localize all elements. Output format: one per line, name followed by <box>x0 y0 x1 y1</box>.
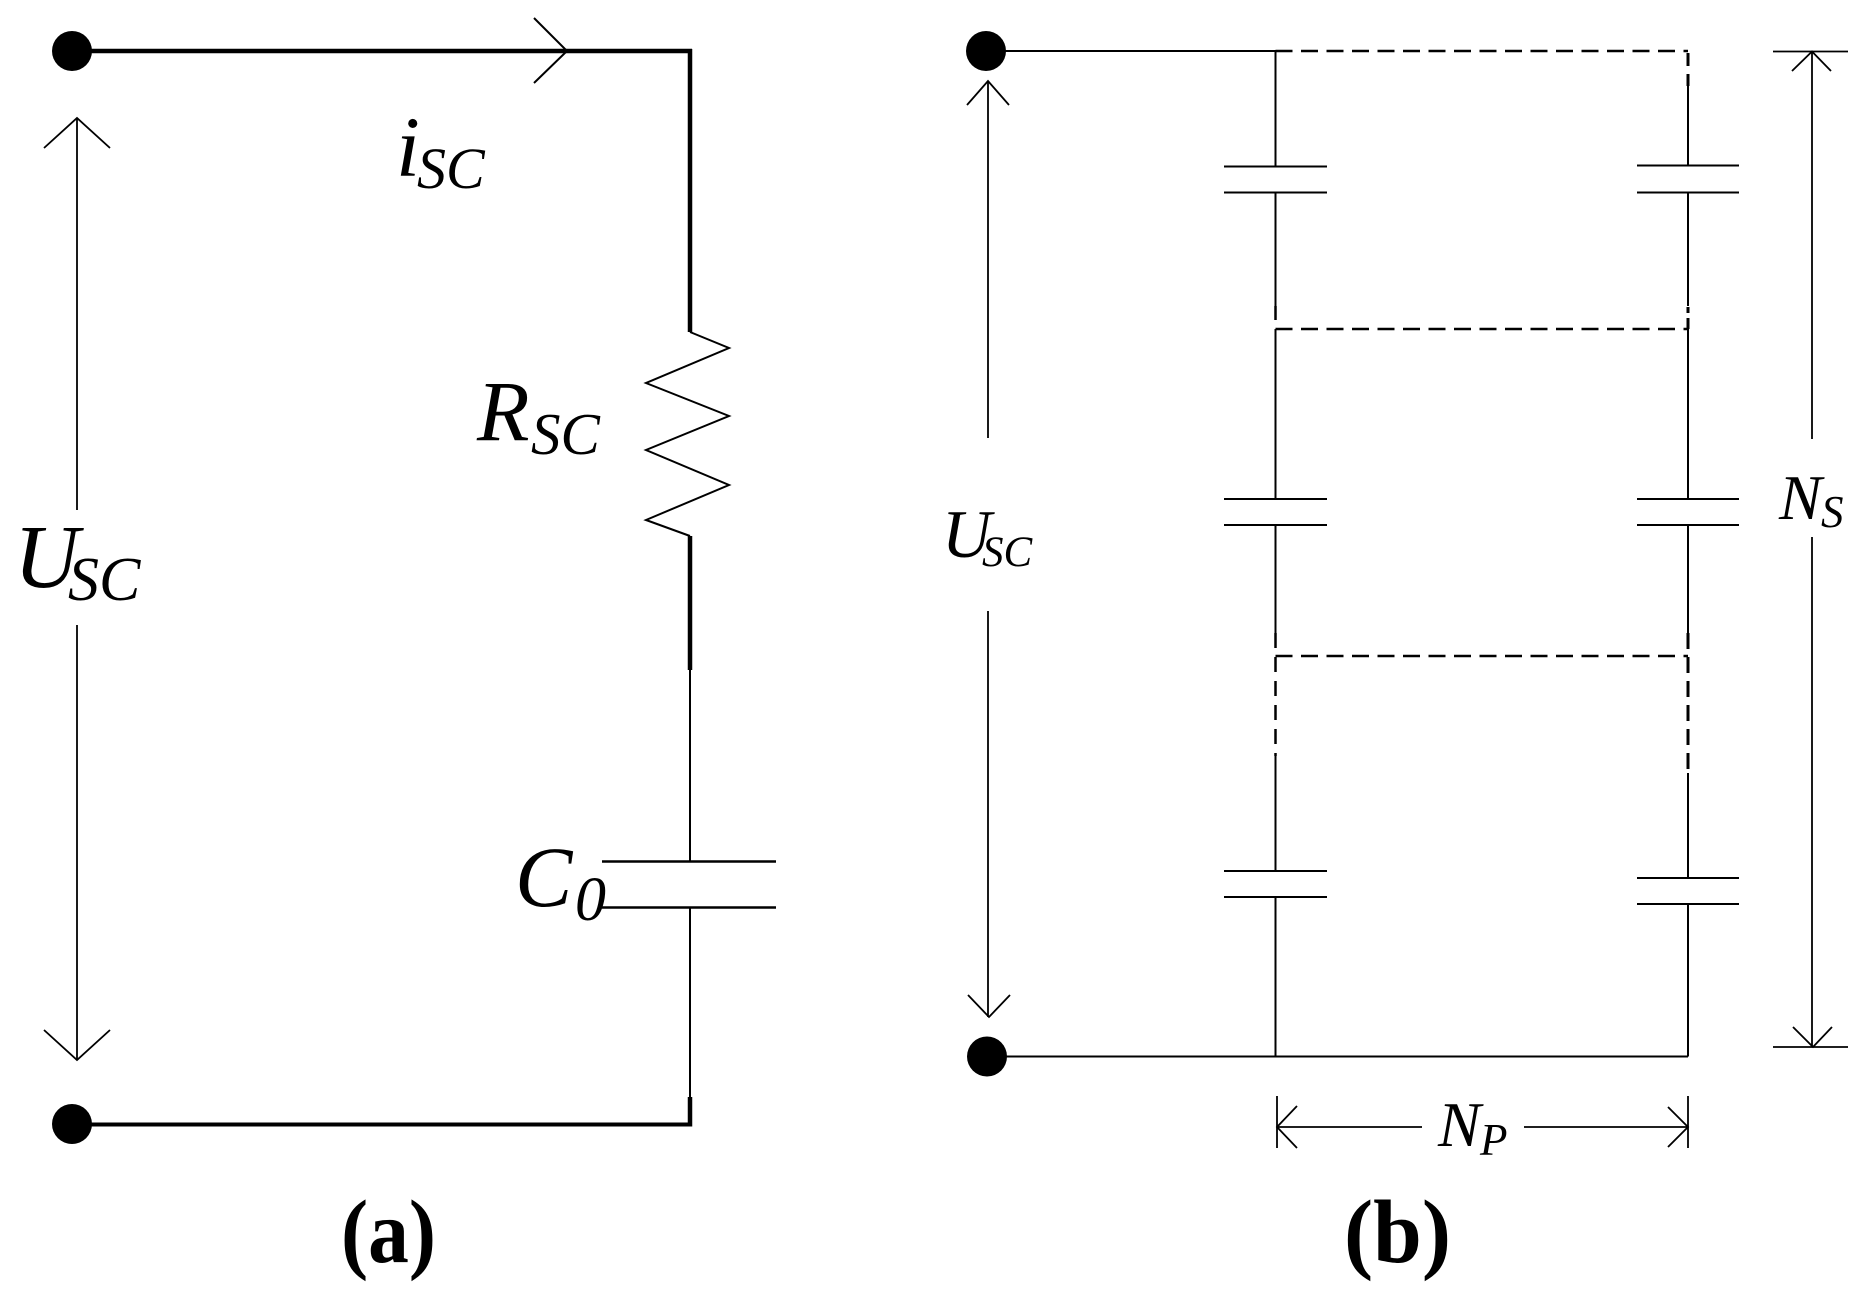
dimension N_P right tick <box>1687 1096 1689 1148</box>
wire top horizontal dashed (b) <box>1276 50 1689 53</box>
svg-text:(b): (b) <box>1344 1183 1451 1282</box>
right column wire: cap1 to junction1 <box>1687 193 1689 307</box>
resistor R_SC zigzag <box>646 332 729 536</box>
svg-text:N: N <box>1437 1089 1484 1160</box>
capacitor C0 bottom plate <box>602 906 776 909</box>
capacitor b-R3 top plate <box>1637 877 1739 879</box>
dimension N_P line left <box>1277 1126 1422 1128</box>
dimension N_S arrow head down <box>1793 1027 1832 1047</box>
right column wire: junction1 to cap2 <box>1687 329 1689 499</box>
svg-text:SC: SC <box>68 546 141 614</box>
left column wire: top to cap1 <box>1275 51 1277 167</box>
label i_SC <box>396 99 486 201</box>
svg-text:SC: SC <box>417 136 486 201</box>
voltage arrow U_SC (a) lower segment <box>76 625 78 1060</box>
wire thick corner stub bottom-right (a) <box>688 1097 693 1127</box>
svg-text:S: S <box>1821 487 1844 537</box>
dimension N_S line lower <box>1811 537 1813 1047</box>
right column wire: cap2 down <box>1687 525 1689 633</box>
svg-text:SC: SC <box>982 529 1034 576</box>
wire below resistor thick stub <box>688 536 693 670</box>
right column dashes at top <box>1687 53 1690 86</box>
right column dashes at junction1 <box>1687 307 1690 329</box>
dashed replication line 1 (b) <box>1276 328 1689 331</box>
wire top horizontal solid (b) <box>986 50 1276 52</box>
right column dashed segment at junction2 <box>1687 633 1690 773</box>
capacitor b-L1 top plate <box>1224 166 1327 168</box>
terminal node dot top-left (a) <box>52 31 92 71</box>
arrow head up (b) <box>967 81 1009 105</box>
wire bottom horizontal (a) <box>72 1123 692 1127</box>
left column dashes at junction1 <box>1274 306 1277 329</box>
left column wire: cap1 to junction1 <box>1275 193 1277 307</box>
dimension N_P left tick <box>1276 1096 1278 1148</box>
left column wire: to cap3 <box>1275 756 1277 871</box>
arrow head down (a) <box>44 1030 110 1060</box>
dimension N_S line upper <box>1811 52 1813 440</box>
svg-text:R: R <box>476 363 530 459</box>
capacitor b-R2 bottom plate <box>1637 524 1739 526</box>
label N_P <box>1437 1089 1508 1165</box>
terminal node dot top-left (b) <box>966 31 1006 71</box>
current arrow head i_SC on top wire <box>534 18 567 83</box>
right column wire: to cap3 <box>1687 773 1689 878</box>
right column wire: to cap1 <box>1687 86 1689 166</box>
left column wire: cap2 down <box>1275 525 1277 633</box>
dimension N_P line right <box>1524 1126 1688 1128</box>
right column wire: cap3 to bottom <box>1687 904 1689 1057</box>
arrow head up (a) <box>44 118 110 148</box>
capacitor b-L3 bottom plate <box>1224 896 1327 898</box>
wire thin to capacitor top <box>689 670 691 862</box>
dimension N_S top extension bar <box>1773 51 1848 53</box>
left column dashed segment at junction2 <box>1274 633 1277 756</box>
dimension N_S bottom extension bar <box>1773 1046 1848 1048</box>
capacitor b-L2 bottom plate <box>1224 524 1327 526</box>
left column wire: cap3 to bottom <box>1275 897 1277 1057</box>
dimension N_S arrow head up <box>1792 52 1831 72</box>
capacitor b-R2 top plate <box>1637 498 1739 500</box>
svg-text:P: P <box>1479 1115 1508 1165</box>
capacitor C0 top plate <box>602 860 776 863</box>
capacitor b-R3 bottom plate <box>1637 903 1739 905</box>
svg-text:N: N <box>1778 462 1825 533</box>
terminal node dot bottom-left (b) <box>967 1037 1007 1077</box>
svg-text:SC: SC <box>531 401 601 467</box>
voltage arrow U_SC (a) upper segment <box>76 118 78 510</box>
capacitor b-L2 top plate <box>1224 498 1327 500</box>
wire top horizontal (a) <box>72 49 692 54</box>
left column wire: junction1 to cap2 <box>1275 329 1277 499</box>
wire right vertical upper (a) <box>688 49 693 332</box>
wire thin below capacitor <box>689 908 691 1098</box>
label U_SC (b) <box>942 496 1034 576</box>
capacitor b-R1 top plate <box>1637 165 1739 167</box>
svg-text:(a): (a) <box>341 1183 436 1282</box>
capacitor b-L1 bottom plate <box>1224 192 1327 194</box>
dimension N_P left arrow head <box>1277 1106 1297 1148</box>
dashed replication line 2 (b) <box>1276 655 1689 658</box>
wire bottom horizontal (b) <box>987 1056 1688 1058</box>
capacitor b-L3 top plate <box>1224 870 1327 872</box>
label C_0 <box>515 829 606 934</box>
svg-text:C: C <box>515 829 574 925</box>
dimension N_P right arrow head <box>1668 1107 1688 1147</box>
voltage arrow U_SC (b) upper segment <box>987 81 989 438</box>
label U_SC (a) <box>14 508 141 614</box>
voltage arrow U_SC (b) lower segment <box>987 611 989 1017</box>
arrow head down (b) <box>968 995 1010 1017</box>
label N_S <box>1778 462 1844 537</box>
label R_SC <box>476 363 601 467</box>
svg-text:0: 0 <box>575 866 606 934</box>
terminal node dot bottom-left (a) <box>52 1104 92 1144</box>
capacitor b-R1 bottom plate <box>1637 192 1739 194</box>
